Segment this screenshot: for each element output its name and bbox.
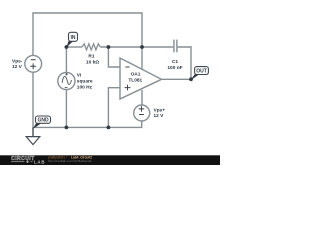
svg-text:OA1: OA1	[131, 71, 141, 77]
svg-text:http://circuitlab.com/c3s35abG: http://circuitlab.com/c3s35abGjmak	[48, 159, 92, 163]
svg-text:TL081: TL081	[128, 78, 142, 84]
svg-text:GND: GND	[37, 118, 49, 124]
svg-text:VI: VI	[77, 72, 82, 78]
svg-text:C1: C1	[172, 59, 178, 65]
svg-text:100 nF: 100 nF	[167, 65, 182, 71]
svg-text:OUT: OUT	[196, 69, 207, 75]
svg-text:100 Hz: 100 Hz	[77, 85, 93, 91]
svg-text:R1: R1	[88, 53, 94, 59]
svg-text:Vps-: Vps-	[12, 58, 23, 64]
svg-text:square: square	[77, 78, 93, 84]
svg-text:LAB: LAB	[34, 159, 45, 164]
svg-text:12 V: 12 V	[154, 113, 165, 119]
svg-text:10 kΩ: 10 kΩ	[86, 60, 99, 66]
svg-text:CIRCUIT: CIRCUIT	[11, 156, 35, 162]
svg-text:IN: IN	[71, 35, 76, 41]
svg-text:Vps+: Vps+	[154, 108, 166, 114]
svg-text:12 V: 12 V	[12, 64, 23, 70]
